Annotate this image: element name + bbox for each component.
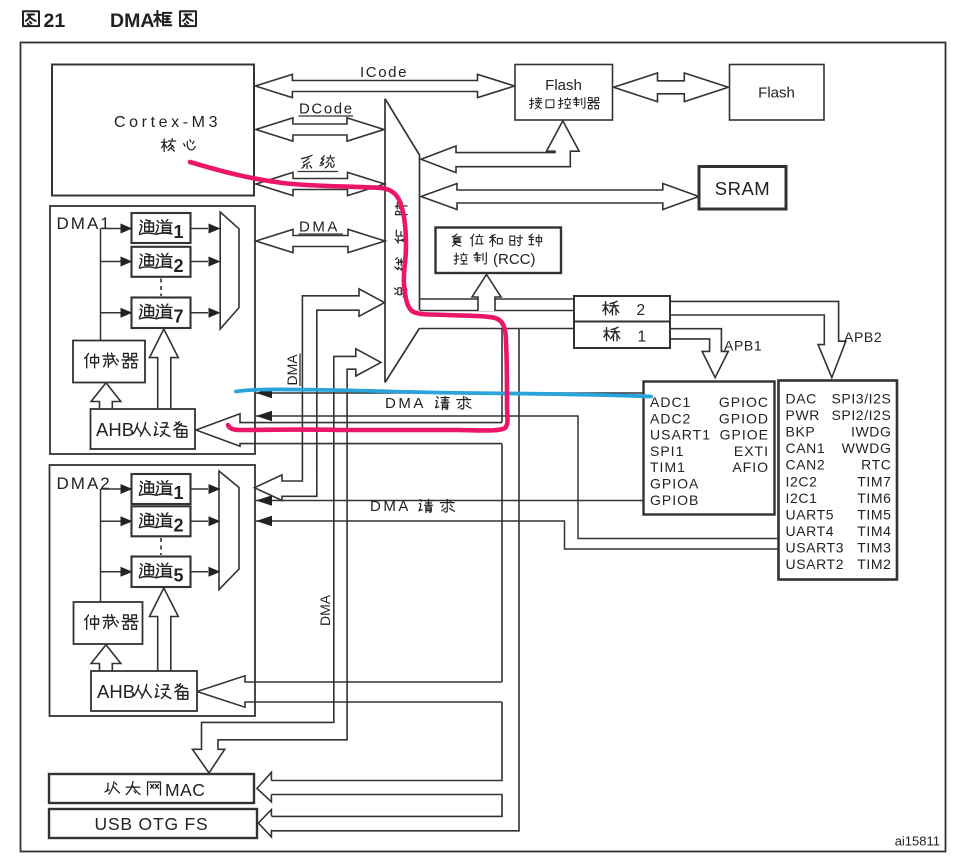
bus DMA2 to busmatrix (channel A) (255, 289, 385, 501)
svg-text:USB OTG FS: USB OTG FS (95, 814, 209, 834)
arrow into DMA1 AHB slave (196, 414, 502, 446)
box 桥2 (574, 296, 670, 322)
svg-text:TIM7: TIM7 (857, 473, 891, 489)
box AHB从设备 DMA1 (91, 409, 196, 449)
wire 通道 to funnel DMA1 (191, 228, 209, 230)
svg-text:DMA: DMA (299, 219, 340, 236)
svg-text:DMA: DMA (110, 10, 154, 32)
svg-text:USART1: USART1 (650, 427, 711, 443)
arrow head into 以太网MAC right edge (257, 772, 271, 802)
wire 仲裁器 feed lines DMA2 (100, 489, 102, 602)
svg-text:USART3: USART3 (786, 539, 845, 555)
label 系统 (301, 155, 334, 168)
bus DMA double arrow DMA1-busmatrix (256, 229, 385, 252)
bus busmatrix to SRAM double arrow (421, 184, 699, 210)
svg-text:DCode: DCode (299, 101, 354, 118)
svg-text:TIM3: TIM3 (857, 539, 891, 555)
svg-text:1: 1 (174, 483, 184, 503)
svg-text:AHB: AHB (96, 419, 134, 440)
svg-text:2: 2 (174, 256, 184, 276)
svg-text:IWDG: IWDG (851, 424, 892, 440)
wire 通道 to funnel DMA2 (191, 488, 209, 490)
svg-text:TIM5: TIM5 (857, 506, 891, 522)
svg-text:APB2: APB2 (844, 329, 882, 345)
svg-text:5: 5 (174, 566, 184, 586)
wire 通道 to funnel DMA1 (191, 312, 209, 314)
bus 系统 double arrow (256, 172, 385, 195)
box 通道2 DMA1 (132, 247, 191, 277)
svg-text:TIM4: TIM4 (857, 523, 891, 539)
box 以太网 MAC (49, 774, 254, 803)
svg-text:Cortex-M3: Cortex-M3 (114, 114, 221, 131)
svg-text:APB1: APB1 (724, 338, 762, 354)
box 通道5 DMA2 (132, 557, 191, 588)
svg-text:CAN2: CAN2 (786, 457, 826, 473)
wire 通道 to funnel DMA1 (191, 261, 209, 263)
svg-text:SPI1: SPI1 (650, 443, 684, 459)
svg-text:RTC: RTC (861, 457, 891, 473)
box 仲裁器 DMA1 (73, 341, 145, 383)
box APB1 peripherals (DAC..) (779, 381, 898, 580)
svg-text:21: 21 (44, 10, 66, 32)
svg-text:Flash: Flash (758, 85, 795, 102)
funnel mux DMA2 (219, 471, 239, 590)
box Cortex-M3 core (52, 65, 254, 196)
arrow AHB slave to 通道7 (150, 329, 179, 409)
svg-text:1: 1 (638, 329, 647, 346)
box AHB从设备 DMA2 (91, 671, 197, 711)
svg-text:GPIOE: GPIOE (720, 427, 769, 443)
wire 通道 to funnel DMA2 (191, 520, 209, 522)
box 通道7 DMA1 (132, 298, 191, 329)
bus Flash interface to Flash double arrow (614, 73, 729, 102)
annotation pink stroke (190, 162, 508, 431)
svg-text:TIM2: TIM2 (857, 556, 891, 572)
svg-text:(RCC): (RCC) (493, 251, 536, 268)
svg-text:DMA: DMA (284, 354, 300, 386)
svg-text:I2C1: I2C1 (786, 490, 818, 506)
bus MAC to busmatrix (channel B) with arrow into MAC (192, 349, 381, 773)
svg-text:DMA: DMA (370, 498, 411, 515)
svg-text:1: 1 (174, 222, 184, 242)
AHB slave bus vertical channel (501, 329, 503, 423)
svg-text:MAC: MAC (165, 780, 205, 800)
wire DMA request line B (APB1 box to DMA1) (256, 416, 779, 539)
arrow into DMA2 AHB slave (197, 676, 502, 707)
svg-text:EXTI: EXTI (734, 443, 769, 459)
svg-text:GPIOD: GPIOD (719, 410, 769, 426)
svg-text:Flash: Flash (545, 77, 582, 94)
svg-text:PWR: PWR (786, 407, 820, 423)
arrow head into USB OTG FS right edge (258, 810, 271, 837)
wire DMA request line A (APB2 box to DMA1) (256, 392, 644, 394)
svg-text:SPI2/I2S: SPI2/I2S (831, 407, 891, 423)
svg-text:DMA: DMA (385, 395, 426, 412)
svg-text:DMA: DMA (317, 594, 333, 626)
svg-text:GPIOB: GPIOB (650, 492, 699, 508)
title 图21 DMA框图 (23, 11, 39, 26)
APB2 bus bridge2 to peripherals (670, 301, 846, 377)
svg-text:DAC: DAC (786, 391, 817, 407)
box 通道1 DMA1 (132, 213, 191, 243)
svg-text:UART4: UART4 (786, 523, 835, 539)
svg-text:2: 2 (174, 516, 184, 536)
svg-text:USART2: USART2 (786, 556, 845, 572)
wire 通道 to funnel DMA2 (191, 571, 209, 573)
bus DCode double arrow (256, 118, 384, 141)
svg-text:I2C2: I2C2 (786, 473, 818, 489)
box 仲裁器 DMA2 (74, 602, 143, 644)
APB1 bus bridge1 to peripherals (670, 329, 728, 378)
dashed line channels DMA2 (160, 538, 162, 555)
arrow AHB slave to 仲裁器 DMA2 (91, 645, 121, 671)
svg-text:UART5: UART5 (786, 506, 835, 522)
svg-text:AHB: AHB (97, 681, 135, 702)
wire DMA request line C (APB2 box to DMA2) (256, 500, 644, 502)
box 桥1 (574, 322, 670, 349)
wire DMA request line D (APB1 box to DMA2) (256, 521, 779, 549)
svg-text:ICode: ICode (360, 64, 408, 81)
arrow AHB slave to 通道5 (150, 588, 179, 671)
svg-text:ADC2: ADC2 (650, 410, 691, 426)
svg-text:GPIOA: GPIOA (650, 476, 699, 492)
svg-text:TIM6: TIM6 (857, 490, 891, 506)
svg-text:BKP: BKP (786, 424, 816, 440)
svg-text:2: 2 (637, 302, 646, 319)
box DMA2 (50, 465, 256, 716)
annotation blue stroke (236, 389, 651, 396)
wire busmatrix to bridge1 (419, 328, 574, 330)
box 通道1 DMA2 (132, 474, 191, 504)
svg-text:SRAM: SRAM (715, 178, 770, 199)
svg-text:AFIO: AFIO (732, 459, 769, 475)
svg-text:ai15811: ai15811 (895, 834, 940, 849)
box APB2 peripherals (ADC1..) (644, 382, 775, 515)
svg-text:WWDG: WWDG (842, 440, 892, 456)
svg-text:CAN1: CAN1 (786, 440, 826, 456)
svg-text:7: 7 (174, 307, 184, 327)
svg-text:DMA1: DMA1 (57, 214, 112, 233)
wire 仲裁器 feed lines DMA1 (100, 229, 102, 342)
svg-text:ADC1: ADC1 (650, 394, 691, 410)
box Flash 接口控制器 (515, 65, 613, 121)
svg-text:TIM1: TIM1 (650, 459, 686, 475)
arrow to RCC (472, 275, 501, 312)
funnel mux DMA1 (220, 212, 239, 329)
box SRAM (699, 167, 786, 210)
svg-text:SPI3/I2S: SPI3/I2S (831, 391, 891, 407)
box Flash (730, 65, 825, 121)
svg-text:DMA2: DMA2 (57, 474, 112, 493)
dashed line channels DMA1 (160, 279, 162, 297)
bus matrix outline (384, 99, 386, 383)
AHB bus band busmatrix to bridge2 (420, 298, 574, 300)
svg-text:GPIOC: GPIOC (719, 394, 769, 410)
bus busmatrix to Flash interface bent arrow (421, 121, 579, 173)
bus ICode double arrow (255, 74, 514, 97)
box 通道2 DMA2 (132, 506, 191, 536)
arrow AHB slave to 仲裁器 DMA1 (91, 383, 121, 409)
box 复位和时钟控制(RCC) (436, 228, 562, 274)
box DMA1 (50, 206, 255, 454)
vertical label 总线矩阵 (394, 202, 407, 297)
box USB OTG FS (49, 809, 257, 838)
